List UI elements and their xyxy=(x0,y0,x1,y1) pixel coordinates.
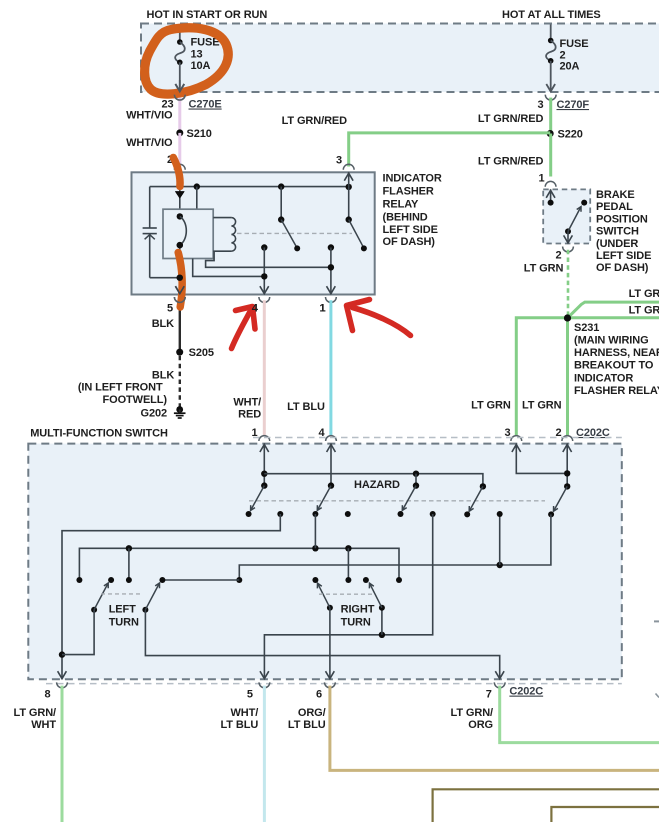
wire coil output to pin 1 node xyxy=(206,251,331,267)
node hazard bus / pin 1 xyxy=(261,471,267,477)
relay switch SW2 xyxy=(346,216,352,222)
wire BLK S205 to G202 (dashed) xyxy=(179,356,181,407)
bus B wire xyxy=(79,548,399,580)
splice S231 xyxy=(564,315,571,322)
svg-text:LT BLU: LT BLU xyxy=(287,401,325,413)
wire LT GRN S231 to MFS pin 2 xyxy=(566,318,569,435)
svg-text:FOOTWELL): FOOTWELL) xyxy=(103,394,168,406)
MFS pin 3 internal wire xyxy=(516,444,567,474)
left turn mechanical link dashed xyxy=(101,593,141,595)
svg-text:LEFT SIDE: LEFT SIDE xyxy=(596,250,651,262)
svg-text:5: 5 xyxy=(247,688,253,700)
brake switch arm xyxy=(565,228,571,234)
node pin 2 / pin 3 junction xyxy=(564,470,570,476)
relay pin 2 internal arrow redrawn over annotation xyxy=(175,192,184,199)
node pin 8 / left turn xyxy=(59,651,65,657)
svg-text:G202: G202 xyxy=(140,408,167,420)
svg-text:LT GRN/: LT GRN/ xyxy=(14,707,57,719)
relay switch SW1 xyxy=(278,216,284,222)
wire relay SW1 contact to pin 4 xyxy=(263,248,265,295)
node bus B stub 2 xyxy=(345,545,351,551)
svg-text:3: 3 xyxy=(336,155,342,167)
svg-text:C270E: C270E xyxy=(189,99,222,111)
relay pin 4 xyxy=(259,297,270,302)
svg-text:LEFT SIDE: LEFT SIDE xyxy=(383,224,438,236)
svg-text:ORG/: ORG/ xyxy=(298,707,326,719)
svg-text:1: 1 xyxy=(538,173,544,185)
svg-text:LT GRN: LT GRN xyxy=(471,400,511,412)
MFS pin 6 connector xyxy=(325,682,336,687)
connector C270E arrow redrawn over annotation xyxy=(179,80,181,92)
MFS pin 8 arrow xyxy=(58,671,67,679)
wire LT GRN S231 to MFS pin 3 xyxy=(516,318,567,436)
brake switch fixed contact right xyxy=(581,200,587,206)
node top bus / pin 3 xyxy=(346,184,352,190)
node hazard bus center xyxy=(413,471,419,477)
svg-text:LT GRN/RED: LT GRN/RED xyxy=(282,115,348,127)
wire dark olive inner xyxy=(551,807,659,822)
svg-text:7: 7 xyxy=(486,688,492,700)
svg-text:OF DASH): OF DASH) xyxy=(596,262,649,274)
wire WHT/VIO C270E to S210 xyxy=(178,98,181,132)
right turn mechanical link dashed xyxy=(319,593,372,595)
svg-text:MULTI-FUNCTION SWITCH: MULTI-FUNCTION SWITCH xyxy=(30,427,168,439)
wire BLK relay pin 5 to S205 xyxy=(179,300,181,349)
wire relay SW2 contact to pin 1 xyxy=(330,248,332,295)
svg-text:S210: S210 xyxy=(187,128,212,140)
svg-text:1: 1 xyxy=(319,303,325,315)
wire LT GRN S231 branch upper right xyxy=(568,302,659,318)
hand-drawn orange stroke through relay lower xyxy=(178,253,182,308)
MFS pin 4 internal wire xyxy=(330,444,332,486)
flasher contact unit box xyxy=(163,209,213,258)
svg-text:BLK: BLK xyxy=(152,370,174,382)
relay internal arrow on pin 2 wire xyxy=(175,192,184,199)
svg-text:(IN LEFT FRONT: (IN LEFT FRONT xyxy=(78,382,163,394)
wire LT GRN/RED S220 to relay pin 3 xyxy=(349,133,551,167)
wire flasher output to pin 4 node xyxy=(193,259,265,277)
wire right turn pivot 1 to pin 6 xyxy=(329,608,331,679)
svg-text:2: 2 xyxy=(555,250,561,262)
svg-text:(UNDER: (UNDER xyxy=(596,238,638,250)
node bus B / hazard contact 2 xyxy=(312,545,318,551)
relay pin 5 xyxy=(174,297,185,302)
svg-text:LEFT: LEFT xyxy=(109,604,136,616)
flasher contact upper node xyxy=(177,213,183,219)
svg-text:20A: 20A xyxy=(560,61,580,73)
svg-text:C270F: C270F xyxy=(557,99,590,111)
svg-text:LT GRN: LT GRN xyxy=(524,262,564,274)
svg-text:HARNESS, NEAR: HARNESS, NEAR xyxy=(574,347,659,359)
fuse F2 xyxy=(548,38,554,44)
flasher contact lower node redrawn xyxy=(177,242,183,248)
svg-text:BREAKOUT TO: BREAKOUT TO xyxy=(574,360,654,372)
wire fuse F13 to connector C270E xyxy=(179,62,181,91)
hand-drawn orange stroke through relay upper xyxy=(173,158,180,187)
wire WHT/VIO S210 to relay pin 2 xyxy=(178,133,181,167)
wire dark olive outer xyxy=(433,789,659,822)
svg-text:LT GRN: LT GRN xyxy=(629,305,659,317)
clipped fragment at right edge lower xyxy=(656,694,659,698)
svg-text:LT GRN: LT GRN xyxy=(522,400,562,412)
svg-text:TURN: TURN xyxy=(109,617,139,629)
relay SW2 output contact xyxy=(328,244,334,250)
relay capacitor branch wire lower xyxy=(149,234,151,278)
flasher bimetal contact arc xyxy=(180,216,187,245)
svg-text:WHT: WHT xyxy=(31,719,56,731)
wire capacitor to pin 5 node xyxy=(150,277,180,279)
wire left turn arm 1 to pin 8 bus xyxy=(62,610,94,655)
svg-text:INDICATOR: INDICATOR xyxy=(383,173,442,185)
wire LT GRN/RED S220 to brake switch xyxy=(549,134,552,177)
node bus B stub 1 xyxy=(126,545,132,551)
svg-text:ORG: ORG xyxy=(468,719,493,731)
fuse F13 xyxy=(177,39,183,45)
svg-text:S220: S220 xyxy=(558,128,583,140)
wire WHT/RED relay pin 4 to MFS pin 1 xyxy=(263,300,266,435)
node top bus / switch 1 feed xyxy=(278,183,284,189)
splice S231 node overlay xyxy=(564,314,571,321)
brake switch pin 1 internal wire xyxy=(550,189,552,202)
wire LT GRN/ORG from pin 7 xyxy=(500,686,659,743)
svg-text:WHT/: WHT/ xyxy=(233,397,261,409)
fuse F13 wire from bus xyxy=(179,25,181,43)
svg-text:WHT/VIO: WHT/VIO xyxy=(126,137,173,149)
hand-drawn red arrow at relay pin 1 xyxy=(353,308,411,336)
hazard switch arm 2 xyxy=(328,482,334,488)
svg-text:WHT/: WHT/ xyxy=(230,707,258,719)
connector C270E xyxy=(174,95,185,100)
svg-text:5: 5 xyxy=(167,303,173,315)
relay SW1 output contact xyxy=(261,244,267,250)
svg-text:LT GRN/RED: LT GRN/RED xyxy=(478,113,544,125)
hazard contact to pin 8 bus xyxy=(277,511,283,517)
fuse F2 wire from bus xyxy=(550,25,552,41)
svg-text:S205: S205 xyxy=(189,347,214,359)
splice S220 xyxy=(547,130,554,137)
svg-text:FLASHER: FLASHER xyxy=(383,185,434,197)
MFS pin 1 internal wire xyxy=(263,444,265,486)
svg-text:10A: 10A xyxy=(191,60,211,72)
relay mechanical link dashed line xyxy=(237,232,352,234)
hazard mechanical link dashed line xyxy=(249,500,545,502)
right turn switch arm 2 xyxy=(379,605,385,611)
capacitor C1 xyxy=(143,227,157,229)
indicator flasher relay box xyxy=(132,172,375,294)
svg-text:SWITCH: SWITCH xyxy=(596,226,639,238)
relay pin 2 internal wire xyxy=(179,172,181,216)
wire flasher unit to pin 5 xyxy=(179,245,181,294)
svg-text:(MAIN WIRING: (MAIN WIRING xyxy=(574,335,649,347)
svg-text:RELAY: RELAY xyxy=(383,199,420,211)
MFS pin 7 arrow xyxy=(495,671,504,679)
svg-text:4: 4 xyxy=(252,303,259,315)
left turn switch arm 2 xyxy=(142,607,148,613)
wire LT GRN S231 to right edge xyxy=(568,316,659,319)
clipped fragment at right edge upper xyxy=(654,620,659,622)
isolated contact node xyxy=(345,511,351,517)
wire ORG/LT BLU from pin 6 xyxy=(330,686,659,771)
svg-text:FUSE: FUSE xyxy=(560,38,589,50)
node pin 5 junction xyxy=(177,275,183,281)
relay top bus wire xyxy=(150,186,349,188)
svg-text:LT BLU: LT BLU xyxy=(288,719,326,731)
MFS pin 7 connector xyxy=(494,682,505,687)
svg-text:13: 13 xyxy=(191,49,203,61)
brake switch pin 2 internal wire xyxy=(567,231,569,243)
MFS pin 6 arrow xyxy=(326,671,335,679)
MFS pin 2 internal wire xyxy=(566,444,568,487)
svg-text:LT GRN/: LT GRN/ xyxy=(451,707,494,719)
bus C wire xyxy=(239,514,551,580)
wire LT BLU relay pin 1 to MFS pin 4 xyxy=(329,300,332,435)
svg-text:INDICATOR: INDICATOR xyxy=(574,372,633,384)
svg-text:BLK: BLK xyxy=(152,318,174,330)
svg-text:WHT/VIO: WHT/VIO xyxy=(126,109,173,121)
wire left turn arm 2 to pin 7 xyxy=(145,610,499,679)
svg-text:FLASHER RELAY): FLASHER RELAY) xyxy=(574,385,659,397)
svg-text:S231: S231 xyxy=(574,322,599,334)
svg-text:C202C: C202C xyxy=(509,686,543,698)
wire WHT/LT BLU from pin 5 xyxy=(263,686,266,822)
svg-text:LT GRN: LT GRN xyxy=(629,288,659,300)
left turn switch arm 1 xyxy=(91,607,97,613)
svg-text:HOT IN START OR RUN: HOT IN START OR RUN xyxy=(147,9,268,21)
ground G202 xyxy=(176,406,183,413)
wire fuse F2 to connector C270F xyxy=(550,61,552,92)
relay capacitor branch wire upper xyxy=(149,187,151,228)
svg-text:RIGHT: RIGHT xyxy=(341,604,375,616)
brake switch fixed contact left xyxy=(548,200,554,206)
svg-text:8: 8 xyxy=(44,688,50,700)
svg-text:PEDAL: PEDAL xyxy=(596,201,633,213)
wire LT GRN/WHT from pin 8 xyxy=(61,686,64,822)
splice S210 xyxy=(176,129,183,136)
connector C270F xyxy=(545,95,556,100)
flasher contact lower node xyxy=(177,242,183,248)
connector C202C dashed line top xyxy=(253,437,622,439)
node right turn pivot 2 feed xyxy=(379,632,385,638)
svg-text:(BEHIND: (BEHIND xyxy=(383,211,428,223)
MFS pin 8 connector xyxy=(57,682,68,687)
svg-text:HAZARD: HAZARD xyxy=(354,479,400,491)
hazard switch arm 3 xyxy=(413,482,419,488)
wire left turn contact link xyxy=(162,579,239,581)
svg-text:LT BLU: LT BLU xyxy=(221,719,259,731)
relay coil L1 xyxy=(213,218,231,252)
splice S205 xyxy=(176,349,183,356)
hazard switch arm 4 xyxy=(480,483,486,489)
svg-text:POSITION: POSITION xyxy=(596,213,648,225)
relay pin 3 internal wire and arrow xyxy=(348,172,350,219)
wire LT GRN/RED C270F to S220 xyxy=(549,98,552,134)
node bus C / contact stub xyxy=(497,562,503,568)
relay switch SW1 feed wire xyxy=(280,187,282,220)
svg-text:OF DASH): OF DASH) xyxy=(383,236,436,248)
MFS pin 4 connector xyxy=(326,436,337,441)
connector C202C dashed line bottom xyxy=(46,683,622,685)
svg-text:3: 3 xyxy=(537,99,543,111)
svg-text:LT GRN/RED: LT GRN/RED xyxy=(478,156,544,168)
svg-text:RED: RED xyxy=(238,409,261,421)
relay pin 1 xyxy=(326,297,337,302)
wire node to flasher unit xyxy=(196,187,198,210)
brake pedal position switch box xyxy=(543,189,590,243)
MFS pin 1 connector xyxy=(259,436,270,441)
long vertical wire to pin 5 bus xyxy=(430,511,436,517)
svg-text:BRAKE: BRAKE xyxy=(596,189,635,201)
svg-text:HOT AT ALL TIMES: HOT AT ALL TIMES xyxy=(502,9,601,21)
hand-drawn red arrow at relay pin 4 xyxy=(232,313,250,349)
svg-text:C202C: C202C xyxy=(576,427,610,439)
svg-text:TURN: TURN xyxy=(341,617,371,629)
power band (hot bus) box xyxy=(141,24,659,93)
svg-text:6: 6 xyxy=(316,688,322,700)
hand-drawn orange circle around fuse F13 xyxy=(145,28,229,94)
MFS pin 5 arrow xyxy=(260,671,269,679)
node on top bus above flasher unit xyxy=(194,183,200,189)
brake switch pin 2 xyxy=(563,247,574,252)
multi-function switch box xyxy=(28,444,622,680)
hazard switch arm 5 xyxy=(564,483,570,489)
right turn switch arm 1 xyxy=(327,605,333,611)
node pin 5 junction redrawn over annotation xyxy=(177,275,183,281)
hazard switch arm 1 xyxy=(261,482,267,488)
MFS pin 5 connector xyxy=(259,682,270,687)
hazard feed bus wire xyxy=(264,474,483,487)
wire LT GRN brake switch to S231 (dashed) xyxy=(567,250,570,315)
